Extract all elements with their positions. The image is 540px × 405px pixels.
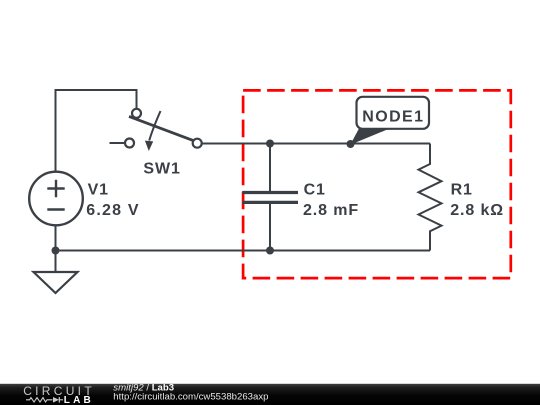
CircuitLab logo wordmark — [23, 384, 95, 405]
svg-text:LAB: LAB — [64, 395, 94, 405]
node junction dot at capacitor bottom — [266, 247, 274, 255]
node NODE1 junction dot — [347, 140, 355, 148]
capacitor C1 — [242, 144, 298, 251]
svg-text:SW1: SW1 — [143, 161, 180, 178]
wire from V1 top to switch SW1 pivot — [56, 90, 137, 172]
node junction dot at V1 bottom — [52, 247, 60, 255]
red dashed boundary box — [243, 90, 511, 278]
switch SW1 unconnected throw stub wire — [110, 142, 126, 144]
wire from switch SW1 throw to resistor R1 top corner — [202, 143, 431, 145]
switch SW1 lever — [129, 116, 193, 140]
switch SW1 actuation arrow — [145, 111, 161, 151]
CircuitLab logo resistor-diode symbol — [26, 397, 63, 403]
wire bottom rail — [56, 250, 431, 252]
switch SW1 pivot terminal — [132, 109, 141, 118]
switch SW1 throw terminal — [193, 139, 202, 148]
resistor R1 — [419, 144, 442, 251]
node junction dot at capacitor top — [266, 140, 274, 148]
ground — [34, 251, 78, 294]
svg-text:NODE1: NODE1 — [362, 109, 424, 126]
switch SW1 unconnected throw terminal — [125, 139, 134, 148]
footer bar — [0, 384, 540, 405]
node NODE1 callout — [350, 97, 429, 145]
svg-text:C1: C1 — [304, 181, 326, 198]
svg-text:V1: V1 — [88, 181, 109, 198]
svg-text:2.8 kΩ: 2.8 kΩ — [450, 202, 504, 219]
voltage source V1 — [29, 172, 83, 226]
svg-text:R1: R1 — [451, 181, 473, 198]
wire V1 bottom stub — [55, 225, 57, 250]
svg-text:2.8 mF: 2.8 mF — [303, 202, 359, 219]
svg-text:6.28 V: 6.28 V — [86, 202, 139, 219]
svg-text:http://circuitlab.com/cw5538b2: http://circuitlab.com/cw5538b263axp — [113, 392, 268, 403]
